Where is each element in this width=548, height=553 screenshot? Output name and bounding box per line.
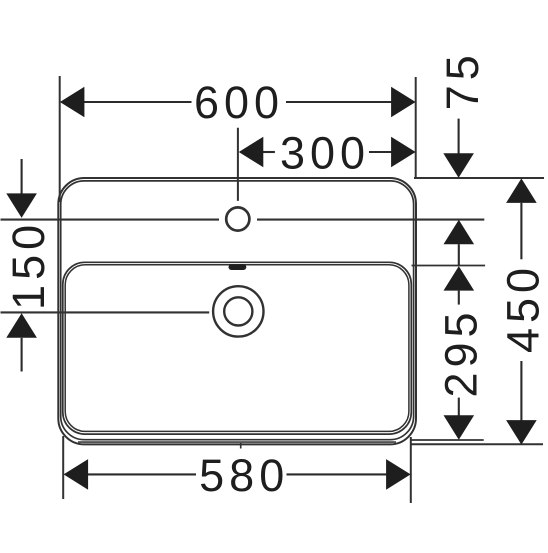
rim bottom inner extension line: [411, 439, 484, 441]
svg-text:150: 150: [3, 220, 54, 310]
drain inner circle: [224, 297, 252, 325]
arrow 580 right: [386, 459, 411, 490]
faucet hole: [226, 207, 249, 230]
dim 75 lower tail: [458, 244, 460, 265]
faucet axis vertical centerline: [237, 128, 239, 201]
580 left extension line: [62, 436, 64, 499]
arrow 450 up: [506, 178, 537, 203]
dim 75 tail: [458, 119, 460, 154]
rim bottom middle line: [78, 441, 396, 443]
arrow 300 right: [391, 137, 416, 168]
faucet horizontal centerline right: [257, 219, 484, 221]
svg-text:295: 295: [436, 307, 487, 397]
svg-text:75: 75: [437, 50, 488, 110]
drain outer circle: [213, 286, 263, 336]
arrow 295 down: [444, 415, 475, 440]
dim 580 line left segment: [88, 473, 196, 475]
svg-text:300: 300: [280, 128, 370, 179]
svg-text:600: 600: [194, 77, 284, 128]
dim 150 bottom tail: [21, 338, 23, 372]
arrow 75 up: [444, 220, 475, 245]
bowl inner: [65, 265, 409, 432]
600 left extension line: [59, 76, 61, 202]
bowl top edge extension line: [412, 265, 486, 267]
dim 295 upper tail: [458, 291, 460, 305]
arrow 300 left: [239, 137, 263, 168]
dim 450 upper line: [520, 203, 522, 259]
arrow 600 right: [391, 87, 416, 118]
arrow 150 up: [6, 313, 37, 338]
dim 580 line right segment: [287, 473, 387, 475]
overflow slot: [229, 264, 247, 270]
bottom center tick: [240, 443, 242, 449]
svg-text:580: 580: [199, 450, 289, 501]
580 right extension line: [410, 437, 412, 503]
faucet horizontal centerline left: [1, 219, 220, 221]
dim 295 lower tail: [458, 398, 460, 416]
rim bottom outer extension line: [411, 443, 543, 445]
washbasin rim inner: [61, 181, 414, 440]
600/300 right extension line: [415, 77, 417, 178]
arrow 295 up: [444, 266, 475, 291]
svg-text:450: 450: [498, 263, 548, 353]
dim 450 lower line: [520, 361, 522, 421]
dim 600 line right segment: [286, 101, 392, 103]
arrow 75 down: [443, 153, 474, 178]
rim top edge extension line: [414, 177, 544, 179]
arrow 450 down: [506, 420, 537, 445]
dim 300 left tick: [263, 151, 275, 153]
arrow 150 down: [6, 193, 37, 218]
dim 150 top tail: [21, 159, 23, 194]
bowl outer: [63, 262, 412, 434]
washbasin rim outer: [58, 178, 416, 444]
drain horizontal centerline: [1, 311, 210, 313]
arrow 600 left: [60, 87, 85, 118]
dim 600 line left segment: [84, 101, 192, 103]
arrow 580 left: [64, 459, 89, 490]
dim 300 right segment: [369, 151, 392, 153]
